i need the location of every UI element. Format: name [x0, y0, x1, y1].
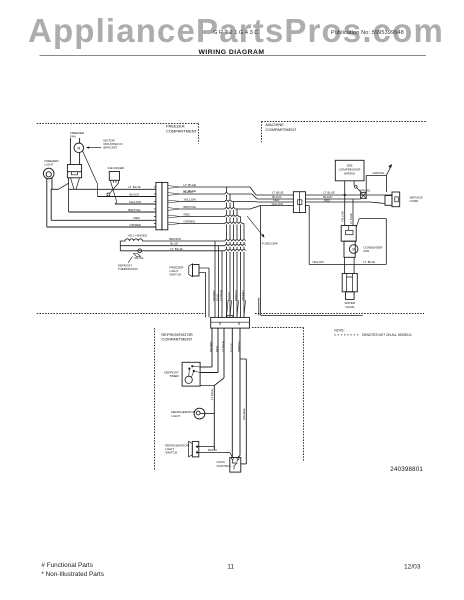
- svg-text:DENOTES NOT ON ALL MODELS.: DENOTES NOT ON ALL MODELS.: [362, 333, 412, 337]
- svg-text:VALVE: VALVE: [345, 305, 354, 309]
- svg-text:LT. BLUE: LT. BLUE: [363, 260, 375, 264]
- svg-text:# Functional Parts: # Functional Parts: [41, 562, 93, 569]
- svg-text:BRN/YEL: BRN/YEL: [128, 208, 141, 212]
- svg-text:BLACK: BLACK: [130, 192, 140, 196]
- svg-text:LT. BLUE: LT. BLUE: [219, 290, 223, 301]
- svg-text:FAN: FAN: [363, 249, 369, 253]
- svg-text:* Non-Illustrated Parts: * Non-Illustrated Parts: [41, 571, 104, 578]
- svg-text:CONTROL: CONTROL: [217, 464, 232, 468]
- svg-text:TIMER: TIMER: [169, 374, 179, 378]
- svg-text:BRN/YEL: BRN/YEL: [184, 205, 197, 209]
- svg-text:RED: RED: [215, 346, 219, 352]
- svg-text:LT. BLUE: LT. BLUE: [170, 247, 182, 251]
- svg-text:BLACK: BLACK: [230, 343, 234, 352]
- svg-text:BRN/YEL: BRN/YEL: [360, 189, 372, 193]
- svg-text:LT. BLUE: LT. BLUE: [221, 341, 225, 352]
- svg-text:BLUE: BLUE: [216, 294, 220, 301]
- svg-text:LT. BLUE: LT. BLUE: [323, 191, 335, 195]
- svg-text:WIRING DIAGRAM: WIRING DIAGRAM: [199, 49, 265, 56]
- svg-text:ADJ. HINGED: ADJ. HINGED: [128, 234, 148, 238]
- svg-text:WIRING: WIRING: [344, 171, 356, 175]
- svg-text:COMPARTMENT: COMPARTMENT: [266, 127, 298, 132]
- svg-text:BLACK: BLACK: [227, 292, 231, 301]
- svg-text:ORANGE: ORANGE: [242, 408, 246, 420]
- svg-text:240398801: 240398801: [390, 466, 423, 473]
- svg-text:BRN/YEL: BRN/YEL: [234, 289, 238, 301]
- svg-text:11: 11: [227, 564, 234, 571]
- svg-text:BROWN: BROWN: [169, 237, 181, 241]
- svg-text:RED: RED: [324, 198, 330, 202]
- svg-text:BROWN: BROWN: [209, 342, 213, 352]
- svg-text:ICE MAKER: ICE MAKER: [108, 166, 125, 170]
- svg-text:OR/RED: OR/RED: [241, 290, 245, 301]
- svg-text:YELLOW: YELLOW: [271, 202, 283, 206]
- svg-text:LIGHT: LIGHT: [45, 163, 54, 167]
- svg-text:RED: RED: [184, 213, 191, 217]
- svg-text:LT. BLUE: LT. BLUE: [128, 185, 140, 189]
- svg-text:LT. BLUE: LT. BLUE: [184, 189, 196, 193]
- svg-text:BLUE: BLUE: [170, 242, 178, 246]
- svg-text:OR/RED: OR/RED: [184, 220, 197, 224]
- svg-text:M: M: [77, 146, 80, 150]
- svg-text:SWITCH: SWITCH: [165, 451, 177, 455]
- svg-text:BLACK: BLACK: [208, 448, 217, 452]
- svg-text:YELLOW: YELLOW: [129, 200, 142, 204]
- svg-text:LT. BLUE: LT. BLUE: [210, 389, 214, 400]
- svg-text:BROWN: BROWN: [212, 291, 216, 301]
- svg-text:SWITCH: SWITCH: [169, 273, 181, 277]
- svg-text:RED: RED: [134, 216, 141, 220]
- svg-text:OR/RED: OR/RED: [130, 223, 143, 227]
- svg-text:YELLOW: YELLOW: [312, 260, 324, 264]
- svg-text:FAN: FAN: [70, 134, 76, 138]
- svg-text:SPLICE: SPLICE: [134, 256, 143, 260]
- svg-text:BRACKET: BRACKET: [104, 146, 118, 150]
- svg-text:YELLOW: YELLOW: [184, 198, 197, 202]
- svg-text:GRN/YEL: GRN/YEL: [372, 171, 385, 175]
- svg-text:M: M: [352, 247, 355, 251]
- svg-text:12/03: 12/03: [404, 564, 421, 571]
- svg-text:THERMOSTAT: THERMOSTAT: [118, 267, 138, 271]
- svg-text:YELLOW: YELLOW: [341, 211, 345, 222]
- svg-text:BRN/YEL: BRN/YEL: [237, 340, 241, 352]
- svg-text:FUSECOMP: FUSECOMP: [262, 242, 278, 246]
- svg-text:CORD: CORD: [410, 199, 420, 203]
- svg-text:GRT21G43C: GRT21G43C: [213, 30, 260, 36]
- svg-text:COMPARTMENT: COMPARTMENT: [166, 128, 198, 133]
- svg-text:LT. BLUE: LT. BLUE: [272, 191, 284, 195]
- svg-text:LT. BLUE: LT. BLUE: [349, 213, 353, 224]
- svg-text:COMPARTMENT: COMPARTMENT: [161, 337, 193, 342]
- svg-text:NOTE:: NOTE:: [334, 329, 344, 333]
- svg-text:Publication No: 5995399648: Publication No: 5995399648: [331, 30, 404, 36]
- svg-text:LT. BLUE: LT. BLUE: [184, 183, 196, 187]
- svg-text:LIGHT: LIGHT: [171, 414, 180, 418]
